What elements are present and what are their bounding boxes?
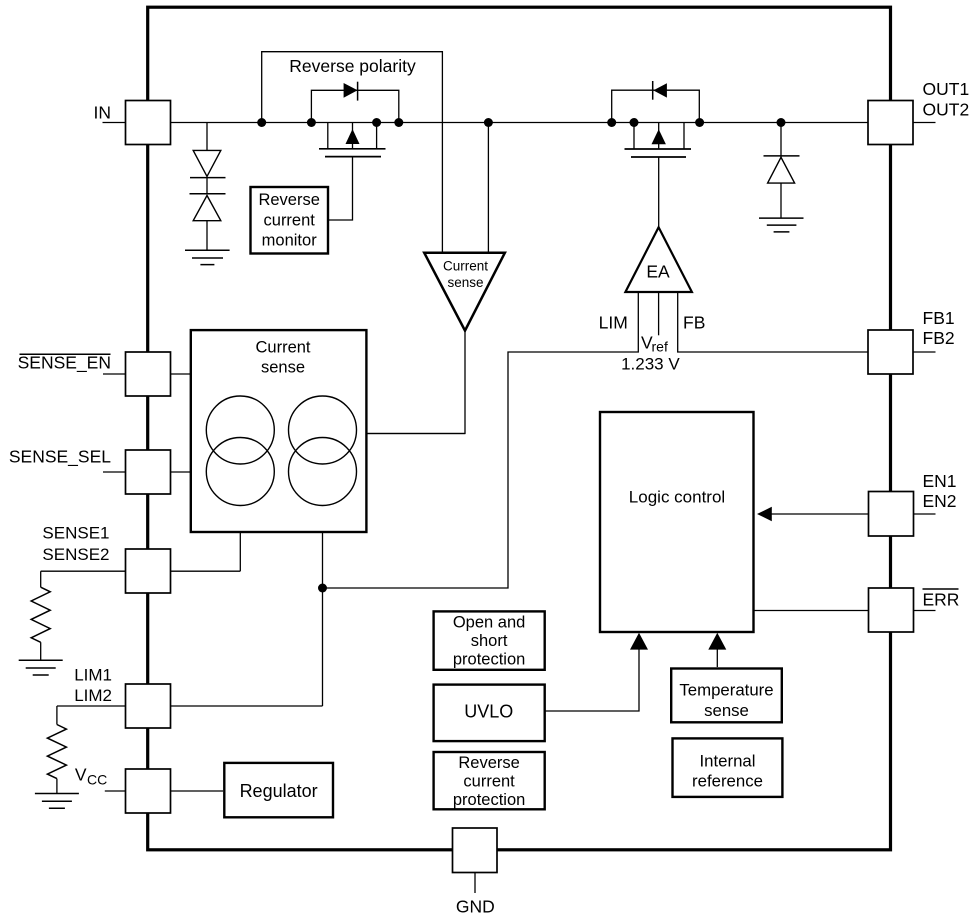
svg-text:protection: protection xyxy=(453,650,525,668)
transistor Q2 channel bar xyxy=(625,148,692,150)
internal reference block xyxy=(673,738,783,797)
svg-text:Reverse: Reverse xyxy=(258,191,319,209)
op-amp EA triangle xyxy=(625,227,692,292)
svg-text:current: current xyxy=(463,772,515,790)
transistor Q2 terminals xyxy=(634,123,684,150)
pin OUT1/OUT2 xyxy=(868,101,913,145)
zener D1a cathode bar xyxy=(190,177,226,179)
pin SENSE_EN xyxy=(126,352,171,396)
svg-text:ref: ref xyxy=(652,339,668,355)
pin EN1/EN2 xyxy=(869,492,914,537)
wire EN arrow into logic control xyxy=(771,513,869,515)
svg-text:EN2: EN2 xyxy=(923,491,957,511)
svg-text:FB: FB xyxy=(683,313,705,333)
wire UVLO to logic control xyxy=(545,649,639,711)
svg-text:SENSE_EN: SENSE_EN xyxy=(18,353,111,374)
ground at R-sense xyxy=(19,660,63,675)
transistor Q2 body arrow xyxy=(652,129,666,144)
wire Q2 gate to EA output xyxy=(658,157,660,227)
open and short protection block xyxy=(434,611,545,669)
pin LIM1/LIM2 xyxy=(126,684,171,728)
arrowhead UVLO xyxy=(630,633,648,650)
wire EA Vref stub xyxy=(658,292,660,335)
svg-text:sense: sense xyxy=(704,701,749,720)
ground at D1 xyxy=(185,250,230,264)
reverse current protection block xyxy=(434,752,545,809)
op-amp current sense triangle xyxy=(424,253,505,331)
svg-text:Internal: Internal xyxy=(700,752,756,771)
svg-text:FB2: FB2 xyxy=(923,328,955,348)
svg-text:EA: EA xyxy=(646,262,670,282)
regulator block xyxy=(224,763,333,817)
wire SENSE_EN stubs xyxy=(103,373,191,375)
svg-text:OUT1: OUT1 xyxy=(923,79,970,99)
svg-text:current: current xyxy=(264,212,316,230)
resistor R-sense zigzag xyxy=(31,587,50,642)
current source pair 1 xyxy=(206,396,274,464)
diode D2 across Q1 xyxy=(344,83,358,98)
wire body-diode loop Q1 xyxy=(311,90,398,122)
wire current source left stem xyxy=(239,506,241,572)
svg-text:short: short xyxy=(471,632,508,650)
IC boundary frame xyxy=(148,7,891,850)
pin VCC xyxy=(126,769,171,813)
svg-text:Reverse polarity: Reverse polarity xyxy=(289,56,416,76)
wire temperature sense to logic control xyxy=(716,649,718,667)
temperature sense block xyxy=(671,669,782,723)
wire body-diode loop Q2 xyxy=(612,90,700,122)
wire LIM1/2 to limit resistor and current source xyxy=(57,706,323,793)
svg-text:FB1: FB1 xyxy=(923,308,955,328)
ground at D4 xyxy=(759,218,804,232)
svg-text:protection: protection xyxy=(453,791,525,809)
svg-text:LIM1: LIM1 xyxy=(74,666,112,685)
svg-text:Reverse: Reverse xyxy=(458,754,519,772)
transistor Q1 body arrow xyxy=(346,129,360,144)
ground at R-lim xyxy=(35,794,79,809)
wire Q1 gate to reverse current monitor xyxy=(328,157,353,220)
wire main VIN-to-VOUT rail xyxy=(103,122,869,124)
right pin stubs OUT FB EN ERR xyxy=(913,123,936,611)
node dots on main rail xyxy=(257,118,785,593)
pin IN xyxy=(126,101,171,145)
svg-text:SENSE2: SENSE2 xyxy=(42,545,109,564)
current sense block xyxy=(191,330,367,532)
UVLO block xyxy=(434,685,545,742)
svg-text:sense: sense xyxy=(447,275,483,290)
svg-text:SENSE1: SENSE1 xyxy=(42,524,109,543)
svg-text:GND: GND xyxy=(456,897,495,917)
zener D1b cathode bar xyxy=(190,193,226,195)
zener D1b triangle xyxy=(193,196,221,221)
svg-text:IN: IN xyxy=(94,103,112,123)
wire EA LIM input to current sense node xyxy=(323,292,639,588)
transistor Q1 terminals xyxy=(328,123,377,149)
zener D1 stack stem at IN xyxy=(206,123,208,251)
resistor R-lim zigzag xyxy=(47,725,66,779)
svg-text:CC: CC xyxy=(87,772,107,788)
svg-text:V: V xyxy=(75,764,87,784)
pin SENSE1/SENSE2 xyxy=(126,549,171,593)
pin ERR xyxy=(869,588,914,632)
zener D4 at OUT xyxy=(780,123,782,219)
svg-text:sense: sense xyxy=(261,359,305,377)
svg-text:Regulator: Regulator xyxy=(240,781,318,801)
diode D3 across Q2 xyxy=(653,83,667,97)
pin GND xyxy=(453,828,498,873)
pin SENSE_SEL xyxy=(126,450,171,494)
svg-text:Temperature: Temperature xyxy=(679,681,773,700)
svg-text:SENSE_SEL: SENSE_SEL xyxy=(9,446,111,467)
svg-text:ERR: ERR xyxy=(923,589,960,609)
svg-text:UVLO: UVLO xyxy=(464,702,513,722)
svg-text:Logic control: Logic control xyxy=(629,488,725,507)
wire reverse-polarity bypass loop to current sense input xyxy=(262,52,443,253)
svg-text:LIM: LIM xyxy=(599,313,628,333)
current source pair 2 xyxy=(289,396,357,464)
reverse current monitor block xyxy=(251,187,329,254)
wire EA FB input to FB pin xyxy=(678,292,868,352)
wire current sense block output xyxy=(366,433,465,435)
wire SENSE_SEL stubs xyxy=(103,471,191,473)
zener D1a triangle xyxy=(193,150,221,176)
svg-text:LIM2: LIM2 xyxy=(74,686,112,705)
wire ERR to logic control xyxy=(754,610,869,612)
node LIM junction xyxy=(318,584,327,593)
wire current sense amp output to current sense block xyxy=(366,331,465,434)
transistor Q1 gate bar xyxy=(325,156,381,158)
svg-text:1.233 V: 1.233 V xyxy=(621,355,680,374)
svg-text:monitor: monitor xyxy=(262,232,318,250)
svg-text:Open and: Open and xyxy=(453,614,525,632)
pin FB1/FB2 xyxy=(868,330,913,374)
logic control block xyxy=(600,412,754,632)
transistor Q2 gate bar xyxy=(631,156,686,158)
svg-text:OUT2: OUT2 xyxy=(923,99,970,119)
svg-text:EN1: EN1 xyxy=(923,471,957,491)
wire VCC stubs to regulator xyxy=(105,790,223,792)
svg-text:Current: Current xyxy=(443,259,488,274)
arrowhead EN xyxy=(757,507,772,521)
wire current sense amp right input xyxy=(487,123,489,253)
wire current source right stem to LIM wire xyxy=(322,505,324,706)
wire GND stub xyxy=(474,873,476,894)
svg-text:Current: Current xyxy=(255,339,310,357)
arrowhead temperature sense xyxy=(708,633,726,650)
wire SENSE1/2 to sense resistor and current source xyxy=(41,571,241,660)
transistor Q1 channel bar xyxy=(319,148,386,150)
svg-text:reference: reference xyxy=(692,772,763,791)
